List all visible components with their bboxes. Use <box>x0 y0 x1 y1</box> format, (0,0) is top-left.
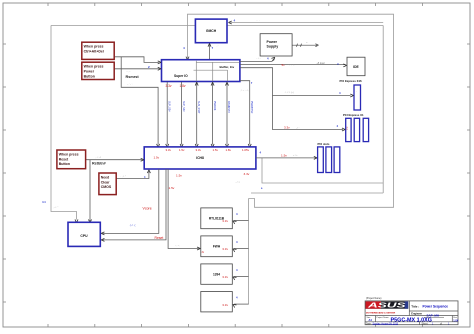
svg-text:IDE: IDE <box>353 65 359 69</box>
svg-text:Date:: Date: <box>366 322 372 325</box>
svg-text:PWROK: PWROK <box>213 101 216 111</box>
svg-text:Ctrl+Alt+Del: Ctrl+Alt+Del <box>84 50 104 54</box>
svg-text:1.5v: 1.5v <box>281 153 287 157</box>
svg-text:GMCH: GMCH <box>206 29 217 33</box>
svg-text:< / >: < / > <box>293 154 298 157</box>
svg-text:. /· # /· (+): . /· # /· (+) <box>284 92 294 94</box>
svg-text:Button: Button <box>59 162 70 166</box>
svg-text:- .· - ·.: - .· - ·. <box>127 83 133 85</box>
svg-text:- /· ·: - /· · <box>296 128 300 130</box>
svg-text:3.3v: 3.3v <box>284 126 290 130</box>
svg-text:1.5v: 1.5v <box>169 186 175 190</box>
svg-text:Rsmrst: Rsmrst <box>126 75 140 79</box>
svg-text:1.0X: 1.0X <box>453 319 458 322</box>
svg-text:1.5v: 1.5v <box>213 148 219 152</box>
svg-text:Title :: Title : <box>411 304 419 308</box>
svg-text:- + -: - + - <box>257 58 261 60</box>
svg-text:CMOS: CMOS <box>101 185 112 189</box>
svg-text:Vcore: Vcore <box>143 206 152 210</box>
svg-text:PCI slots: PCI slots <box>318 142 330 146</box>
svg-text:SLP_S4#: SLP_S4# <box>182 101 185 112</box>
svg-text:· . ·: · . · <box>256 19 260 22</box>
svg-text:PCI Express X16: PCI Express X16 <box>340 79 363 83</box>
svg-text:Super IO: Super IO <box>174 74 188 78</box>
svg-text:When press: When press <box>84 45 104 49</box>
svg-text:Buffer, Inv: Buffer, Inv <box>220 65 235 69</box>
svg-text:3.3v: 3.3v <box>222 303 228 307</box>
svg-text:Supply: Supply <box>267 44 279 48</box>
svg-text:3.3v: 3.3v <box>222 275 228 279</box>
svg-text:Sheet: Sheet <box>422 322 428 325</box>
svg-text:PCI Express X1: PCI Express X1 <box>343 113 364 117</box>
svg-text:SUS_STAT: SUS_STAT <box>197 101 200 114</box>
svg-text:3.3v: 3.3v <box>222 219 228 223</box>
svg-text:, - /· *: , - /· * <box>53 207 58 209</box>
svg-text:1.8v: 1.8v <box>180 84 186 88</box>
svg-text:When press: When press <box>84 65 104 69</box>
svg-text:Need: Need <box>101 175 110 179</box>
svg-text:· , /· *: · , /· * <box>121 176 126 178</box>
svg-text:, - / a: , - / a <box>235 182 241 184</box>
svg-text:CPU: CPU <box>80 234 88 238</box>
svg-text:Reset: Reset <box>155 236 164 240</box>
svg-text:3.3v: 3.3v <box>196 148 202 152</box>
svg-text:3.3v: 3.3v <box>244 172 250 176</box>
svg-text:1.05v: 1.05v <box>242 148 250 152</box>
svg-text:1.8v: 1.8v <box>226 148 232 152</box>
svg-text:FWH: FWH <box>213 245 221 249</box>
svg-text:RSMRST#: RSMRST# <box>227 101 230 114</box>
svg-text:, · /· 4: , · /· 4 <box>95 157 101 159</box>
svg-text:+5 dual: +5 dual <box>317 62 325 65</box>
svg-text:3.3v: 3.3v <box>166 148 172 152</box>
svg-text:· (-/· ,(: · (-/· ,( <box>129 225 136 227</box>
svg-text:5v: 5v <box>282 63 286 67</box>
svg-text:3.3v: 3.3v <box>166 84 172 88</box>
svg-text:Power: Power <box>84 70 95 74</box>
svg-text:3.3v: 3.3v <box>222 247 228 251</box>
svg-text:ASUS: ASUS <box>366 303 406 310</box>
svg-text:1.5v: 1.5v <box>179 148 185 152</box>
svg-text:Power Sequence: Power Sequence <box>423 305 449 309</box>
svg-text:Sunday, August 09, 2015: Sunday, August 09, 2015 <box>373 322 399 325</box>
svg-text:Button: Button <box>84 74 95 78</box>
svg-text:· -· - ·-: · -· - ·- <box>288 65 294 67</box>
svg-text:Clear: Clear <box>101 180 110 184</box>
svg-text:A4: A4 <box>369 318 373 322</box>
svg-text:MOTHERBOARD & SERVER: MOTHERBOARD & SERVER <box>366 311 396 314</box>
svg-text:SLP_S3#: SLP_S3# <box>167 101 170 112</box>
svg-text:1394: 1394 <box>213 273 220 277</box>
svg-text:Reset: Reset <box>59 157 69 161</box>
svg-text:. : ·: . : · <box>216 45 219 47</box>
svg-text:1.5v: 1.5v <box>154 155 160 159</box>
svg-text:Engineer: Engineer <box>411 313 422 316</box>
svg-text:(Project Name): (Project Name) <box>366 297 382 300</box>
svg-text:1.5v: 1.5v <box>176 174 182 178</box>
svg-text:Rstbtn#: Rstbtn# <box>92 161 106 165</box>
svg-text:PWRBTN#: PWRBTN# <box>250 101 253 114</box>
svg-text:ICH8: ICH8 <box>196 156 204 160</box>
svg-text:·- , -·: ·- , -· <box>126 71 131 73</box>
svg-text:When press: When press <box>59 152 79 156</box>
svg-text:, /· + ·- /·,: , /· + ·- /·, <box>240 90 249 92</box>
svg-text:Project Name: Project Name <box>377 316 390 319</box>
svg-text:Power: Power <box>267 40 278 44</box>
svg-text:- , + ,: - , + , <box>175 245 180 247</box>
